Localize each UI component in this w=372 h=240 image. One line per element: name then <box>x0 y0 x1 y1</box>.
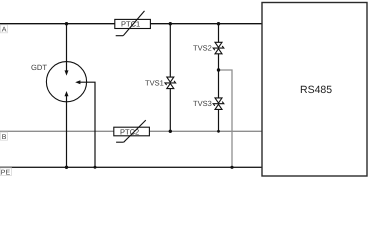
PTC1 strike-through diagonal <box>116 11 145 36</box>
wire TVS2 branch from A <box>218 24 220 43</box>
svg-text:B: B <box>2 134 7 141</box>
junction dot A-GDT <box>65 22 68 25</box>
svg-text:GDT: GDT <box>31 63 47 72</box>
wire TVS1 branch bottom <box>169 89 171 132</box>
net label B <box>1 132 8 141</box>
junction dot B-TVS3 <box>217 130 220 133</box>
RS485 module box <box>262 3 367 177</box>
PTC thermistor PTC2 body <box>114 127 150 136</box>
wire grey branch from TVS midpoint to PE <box>219 70 233 167</box>
junction dot B-TVS1 <box>169 130 172 133</box>
svg-text:PTC2: PTC2 <box>120 127 139 136</box>
svg-text:A: A <box>2 26 7 33</box>
GDT left-pointing arrowhead of center electrode <box>75 80 80 84</box>
junction dot PE-GDT center <box>94 166 97 169</box>
TVS diode TVS3 <box>213 98 224 110</box>
svg-text:TVS1: TVS1 <box>145 78 164 87</box>
wire GDT center electrode to PE <box>80 82 95 167</box>
GDT bottom arrowhead <box>65 91 69 96</box>
junction dot A-TVS1 <box>169 22 172 25</box>
svg-text:TVS2: TVS2 <box>193 43 212 52</box>
wire net A horizontal <box>0 23 262 25</box>
wire TVS3 bottom to B <box>218 109 220 131</box>
svg-text:RS485: RS485 <box>300 84 332 96</box>
svg-text:PE: PE <box>1 169 11 176</box>
junction dot TVS mid branch <box>217 68 220 71</box>
junction dot A-TVS2 <box>217 22 220 25</box>
junction dot PE-grey branch <box>230 166 233 169</box>
wire GDT bottom electrode to PE <box>66 96 68 168</box>
wire TVS1 branch top <box>169 24 171 77</box>
svg-text:TVS3: TVS3 <box>193 99 212 108</box>
net label A <box>1 25 8 34</box>
wire between TVS2 and TVS3 <box>218 54 220 98</box>
PTC2 strike-through diagonal <box>116 120 146 142</box>
GDT top arrowhead <box>65 70 69 75</box>
PTC thermistor PTC1 body <box>115 19 151 28</box>
gas discharge tube GDT body <box>46 62 86 102</box>
wire GDT top electrode from A <box>66 24 68 71</box>
TVS diode TVS2 <box>213 42 224 54</box>
junction dot PE-GDT bottom <box>65 166 68 169</box>
TVS diode TVS1 <box>165 77 176 89</box>
wire net PE horizontal <box>0 166 262 168</box>
net label PE <box>0 168 11 177</box>
wire net B horizontal <box>0 130 262 132</box>
